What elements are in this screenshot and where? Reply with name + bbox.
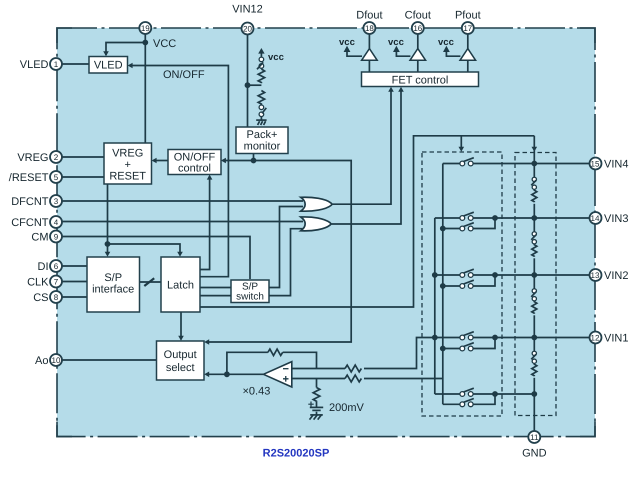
resistor: VIN12 divider upper xyxy=(258,69,264,83)
wire: buffer 3 vcc elbow xyxy=(446,50,460,56)
svg-text:9: 9 xyxy=(54,232,59,241)
arrow: ON/OFF control into VREG+RESET xyxy=(152,158,157,164)
svg-text:2: 2 xyxy=(54,153,59,162)
wire: pin 1 to VLED block xyxy=(62,63,90,65)
transistor buffer Dfout xyxy=(362,49,378,61)
svg-text:20: 20 xyxy=(243,24,252,33)
block ON/OFF control xyxy=(168,150,221,175)
wire: VIN12 divider tap xyxy=(248,84,262,86)
pin 17 Pfout xyxy=(462,22,474,34)
svg-text:switch: switch xyxy=(236,292,264,303)
wire: VIN3 switch row B xyxy=(443,218,495,229)
svg-text:FET control: FET control xyxy=(392,74,449,86)
svg-text:CLK: CLK xyxy=(27,277,49,289)
svg-text:VREG: VREG xyxy=(17,152,48,164)
arrow: control into switch matrix box xyxy=(459,147,465,152)
ground: 200mV source xyxy=(310,415,323,420)
wire: VCC net from pin 19 down to VREG+RESET and branch to VLED xyxy=(106,33,145,143)
pin 18 Dfout xyxy=(363,22,375,34)
wire ON/OFF: Latch output to VLED enable xyxy=(130,66,229,277)
svg-text:CS: CS xyxy=(33,292,48,304)
wire: Pack monitor / ON/OFF node to Output select enable xyxy=(206,154,351,343)
pin 19 VCC xyxy=(139,22,151,34)
wire: pin 2 VREG row xyxy=(62,156,105,158)
svg-text:Output: Output xyxy=(164,349,197,361)
OR gate 2 (Cfout) xyxy=(301,217,331,231)
label VIN3 xyxy=(604,213,628,225)
switch and resistor: ladder VIN4-VIN3 xyxy=(531,177,537,202)
switch: VIN2 to bus A xyxy=(460,269,474,277)
wire: RESET net to S/P interface and Latch xyxy=(108,184,181,255)
node amp output junction dot xyxy=(224,371,230,377)
label VLED xyxy=(20,59,49,71)
svg-text:1: 1 xyxy=(54,60,59,69)
arrow: into ON/OFF control right xyxy=(221,158,226,164)
label 200mV xyxy=(329,402,365,414)
op-amp x0.43 xyxy=(263,362,291,387)
svg-text:GND: GND xyxy=(522,448,547,460)
wire: pin 17 through buffer into FET control xyxy=(467,33,469,72)
arrow: vcc of VIN12 divider xyxy=(258,48,264,54)
wire: Latch down to Output select xyxy=(180,312,182,340)
arrow: into Latch top xyxy=(177,252,183,257)
label VREG xyxy=(17,152,48,164)
label VIN1 xyxy=(604,333,628,345)
svg-text:VLED: VLED xyxy=(20,59,49,71)
wire: pin 3 DFCNT row to OR gate 1 xyxy=(62,200,304,202)
pin 12 VIN1 xyxy=(590,332,602,344)
ground: VIN12 divider xyxy=(256,117,266,125)
switch: GND to bus B xyxy=(460,399,474,407)
label VIN2 xyxy=(604,270,628,282)
svg-text:Ao: Ao xyxy=(35,355,48,367)
arrow: control into ladder box xyxy=(532,147,538,152)
pin 16 Cfout xyxy=(412,22,424,34)
wire: bus A vertical xyxy=(434,218,436,394)
node VCC junction dot xyxy=(142,40,148,46)
svg-text:VLED: VLED xyxy=(94,60,123,72)
svg-text:vcc: vcc xyxy=(268,52,284,63)
wire: VIN2 switch row B xyxy=(443,275,495,286)
label DI xyxy=(38,261,49,273)
label VIN4 xyxy=(604,159,628,171)
label DFCNT xyxy=(11,196,49,208)
wire: pin 5 /RESET row xyxy=(62,176,105,178)
pin 13 VIN2 xyxy=(590,269,602,281)
svg-text:VIN12: VIN12 xyxy=(232,4,263,16)
pin 15 VIN4 xyxy=(590,158,602,170)
label ON/OFF xyxy=(163,69,205,81)
chip body (IC internal area) xyxy=(57,28,595,437)
switch: VIN3 to bus A xyxy=(460,212,474,220)
arrow: vcc buffer 1 xyxy=(344,46,351,52)
pin 9 CM xyxy=(50,231,62,243)
svg-text:17: 17 xyxy=(463,24,472,33)
svg-text:S/P: S/P xyxy=(104,272,122,284)
label vcc divider xyxy=(268,52,284,63)
label Ao xyxy=(35,355,48,367)
svg-text:vcc: vcc xyxy=(388,37,404,48)
node ON/OFF input junction dot xyxy=(251,158,257,164)
svg-text:ON/OFF: ON/OFF xyxy=(163,69,205,81)
block FET control xyxy=(362,72,479,87)
svg-text:11: 11 xyxy=(530,433,539,442)
label CLK xyxy=(27,277,49,289)
svg-text:10: 10 xyxy=(52,356,61,365)
svg-text:select: select xyxy=(166,362,195,374)
switch: VIN3 to bus B xyxy=(460,223,474,231)
svg-text:14: 14 xyxy=(591,214,600,223)
switch and resistor: ladder VIN1-GND xyxy=(531,351,537,376)
svg-text:5: 5 xyxy=(54,173,59,182)
pin 2 VREG xyxy=(50,151,62,163)
svg-text:VIN1: VIN1 xyxy=(604,333,628,345)
arrow: into Output select right (amp) xyxy=(204,372,209,378)
svg-text:control: control xyxy=(178,162,211,174)
switch and resistor: ladder VIN2-VIN1 xyxy=(531,289,537,314)
svg-text:VREG: VREG xyxy=(112,148,143,160)
switch: VIN12 divider top contact xyxy=(257,57,264,69)
block VREG+RESET xyxy=(104,143,152,184)
label part number R2S20020SP xyxy=(263,448,330,460)
wire: GND switch row A xyxy=(435,393,535,395)
svg-text:16: 16 xyxy=(413,24,422,33)
pin 3 DFCNT xyxy=(50,195,62,207)
wire: feedback loop of x0.43 amp xyxy=(227,352,317,374)
pin 7 CLK xyxy=(50,276,62,288)
switch: VIN1 to bus A xyxy=(460,332,474,340)
wire: Latch to S/P switch input 1 xyxy=(200,287,231,289)
svg-text:DI: DI xyxy=(38,261,49,273)
wire: buffer 1 vcc elbow xyxy=(347,50,362,56)
switch: VIN1 to bus B xyxy=(460,343,474,351)
node ladder junction dots xyxy=(531,161,537,397)
arrow: OR1 into FET control xyxy=(388,87,394,92)
resistor: amp plus input xyxy=(345,375,361,382)
wire: resistor ladder spine xyxy=(533,164,535,432)
label vcc buffer3 xyxy=(438,37,454,48)
node VIN12 divider junction dot xyxy=(245,82,251,88)
pin 11 GND xyxy=(528,431,540,443)
svg-text:13: 13 xyxy=(591,271,600,280)
wire: pin 16 through buffer into FET control xyxy=(417,33,419,72)
transistor buffer Cfout xyxy=(410,49,426,61)
wire: pin 7 CLK row xyxy=(62,281,88,283)
label vcc buffer2 xyxy=(388,37,404,48)
battery: 200mV source xyxy=(308,402,323,415)
dashed box: resistor ladder xyxy=(515,153,556,416)
svg-text:VIN3: VIN3 xyxy=(604,213,628,225)
arrow: into VLED top xyxy=(103,51,109,56)
block S/P interface xyxy=(87,257,140,312)
block Pack+ monitor xyxy=(236,127,288,154)
resistor: VIN12 divider lower xyxy=(258,91,264,105)
pin 8 CS xyxy=(50,291,62,303)
block S/P switch xyxy=(231,280,269,303)
resistor: amp feedback xyxy=(268,349,283,355)
wire: ON/OFF control output to VREG+RESET xyxy=(154,160,169,162)
wire: S/P interface to Latch bus xyxy=(140,281,162,283)
svg-text:monitor: monitor xyxy=(244,141,281,153)
svg-text:vcc: vcc xyxy=(438,37,454,48)
wire: OR gate 1 output up to FET control xyxy=(332,89,391,205)
wire: amp output to Output select xyxy=(206,373,263,375)
arrow: into S/P interface top xyxy=(105,252,111,257)
arrow: vcc buffer 3 xyxy=(443,46,450,52)
wire: pin 8 CS row xyxy=(62,296,88,298)
dashed box: switch matrix xyxy=(422,152,502,416)
svg-text:VIN2: VIN2 xyxy=(604,270,628,282)
wire: VIN4 switch row to pin 15 xyxy=(443,163,590,165)
wire: pin 20 VIN12 down to Pack monitor xyxy=(247,34,249,127)
svg-text:CFCNT: CFCNT xyxy=(11,217,49,229)
svg-text:CM: CM xyxy=(31,232,48,244)
label GND xyxy=(522,448,547,460)
node bus A dots xyxy=(432,272,438,340)
pin 10 Ao xyxy=(50,354,62,366)
svg-text:18: 18 xyxy=(365,24,374,33)
label VIN12 xyxy=(232,4,263,16)
pin 20 VIN12 xyxy=(242,23,254,35)
switch: VIN12 divider bottom contact xyxy=(259,105,266,117)
wire: Latch to S/P switch input 2 xyxy=(200,295,231,297)
arrow: into VLED right xyxy=(128,63,133,69)
svg-text:Cfout: Cfout xyxy=(405,10,431,22)
svg-text:200mV: 200mV xyxy=(329,402,365,414)
svg-text:Latch: Latch xyxy=(167,280,194,292)
label Cfout xyxy=(405,10,431,22)
pin 14 VIN3 xyxy=(590,212,602,224)
svg-text:interface: interface xyxy=(92,284,134,296)
node switch row right-end dots xyxy=(492,215,498,397)
svg-text:3: 3 xyxy=(54,197,59,206)
resistor: amp minus input xyxy=(345,365,361,372)
svg-text:vcc: vcc xyxy=(339,37,355,48)
svg-text:6: 6 xyxy=(54,262,59,271)
pin 5 /RESET xyxy=(50,171,62,183)
svg-text:4: 4 xyxy=(54,218,59,227)
svg-text:8: 8 xyxy=(54,293,59,302)
wire: pin 6 DI row xyxy=(62,265,88,267)
wire: VIN1 switch row A to pin 12 xyxy=(435,337,590,339)
wire: 200mV reference tap xyxy=(316,379,318,388)
wire: pin 9 CM row down into S/P switch xyxy=(62,237,251,280)
switch: VIN2 to bus B xyxy=(460,280,474,288)
svg-text:VCC: VCC xyxy=(153,38,176,50)
transistor buffer Pfout xyxy=(460,49,476,61)
svg-text:15: 15 xyxy=(591,159,600,168)
label x0.43 xyxy=(243,386,271,398)
wire: bus B vertical xyxy=(442,164,444,405)
svg-text:19: 19 xyxy=(141,24,150,33)
label /RESET xyxy=(9,172,49,184)
wire: amp minus input line to switch matrix bus A xyxy=(292,338,435,369)
svg-text:/RESET: /RESET xyxy=(9,172,49,184)
svg-text:DFCNT: DFCNT xyxy=(11,196,49,208)
wire: VIN1 switch row B xyxy=(443,338,495,349)
arrow: into ON/OFF control bottom xyxy=(207,175,213,180)
svg-text:Pfout: Pfout xyxy=(455,10,481,22)
OR gate 1 (Dfout) xyxy=(301,197,332,211)
pin 6 DI xyxy=(50,260,62,272)
label CFCNT xyxy=(11,217,49,229)
wire: S/P switch output 2 to OR gate 2 xyxy=(269,229,303,296)
label CS xyxy=(33,292,48,304)
switch: GND to bus A xyxy=(460,388,474,396)
svg-text:+: + xyxy=(124,159,130,171)
pin 1 VLED xyxy=(50,58,62,70)
wire: VIN12 divider vcc stub xyxy=(260,52,262,57)
block Output select xyxy=(157,341,205,380)
wire: amp plus input line to switch matrix bus B xyxy=(292,378,443,380)
wire: GND switch row B xyxy=(443,394,495,404)
pin 4 CFCNT xyxy=(50,216,62,228)
svg-text:7: 7 xyxy=(54,277,59,286)
block VLED xyxy=(89,57,128,74)
wire: Latch to ON/OFF control xyxy=(200,176,210,270)
switch and resistor: ladder VIN3-VIN2 xyxy=(531,232,537,257)
label CM xyxy=(31,232,48,244)
svg-text:RESET: RESET xyxy=(109,171,146,183)
svg-text:Pack+: Pack+ xyxy=(247,129,278,141)
wire: pin 18 through buffer into FET control xyxy=(368,33,370,72)
svg-text:R2S20020SP: R2S20020SP xyxy=(263,448,330,460)
wire: VIN2 switch row A to pin 13 xyxy=(435,274,590,276)
wire: pin 10 Ao row to Output select xyxy=(62,359,157,361)
node bus B dots xyxy=(440,226,446,352)
svg-text:12: 12 xyxy=(591,333,600,342)
resistor: 200mV series xyxy=(313,388,320,402)
bus slash mark xyxy=(144,278,154,286)
wire: buffer 2 vcc elbow xyxy=(396,50,410,56)
svg-text:VIN4: VIN4 xyxy=(604,159,628,171)
label Dfout xyxy=(356,10,382,22)
arrow: OR2 into FET control xyxy=(398,87,404,92)
switch: VIN4 to bus B xyxy=(460,158,474,166)
label VCC xyxy=(153,38,176,50)
label Pfout xyxy=(455,10,481,22)
wire: S/P switch output 1 to OR gate 1 xyxy=(269,207,303,288)
svg-text:×0.43: ×0.43 xyxy=(243,386,271,398)
wire: pin 4 CFCNT row to OR gate 2 xyxy=(62,221,304,223)
arrow: vcc buffer 2 xyxy=(393,46,400,52)
arrow: into Output select top xyxy=(178,336,184,341)
wire: VIN3 switch row A to pin 14 xyxy=(435,217,590,219)
label vcc buffer1 xyxy=(339,37,355,48)
block Latch xyxy=(161,257,200,312)
svg-text:Dfout: Dfout xyxy=(356,10,382,22)
node RESET junction dot xyxy=(105,241,111,247)
wire: Latch long output to switch boxes control xyxy=(200,136,535,307)
arrow: into Output select right (enable) xyxy=(204,339,209,345)
wire: OR gate 2 output up to FET control xyxy=(331,89,401,225)
